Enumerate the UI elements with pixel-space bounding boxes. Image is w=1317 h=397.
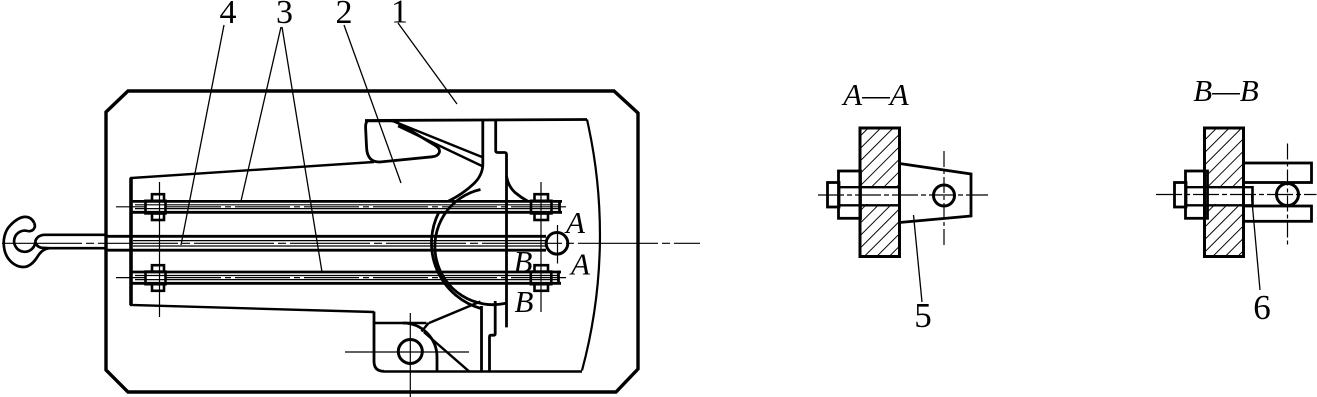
svg-text:3: 3 xyxy=(276,0,293,31)
svg-text:B: B xyxy=(515,284,534,319)
svg-text:A: A xyxy=(569,247,591,282)
svg-text:4: 4 xyxy=(220,0,237,31)
svg-text:B—B: B—B xyxy=(1193,73,1259,108)
svg-text:1: 1 xyxy=(391,0,408,31)
svg-text:A: A xyxy=(564,205,586,240)
svg-text:2: 2 xyxy=(336,0,353,31)
svg-text:5: 5 xyxy=(914,296,932,335)
svg-text:A—A: A—A xyxy=(841,77,910,112)
svg-text:B: B xyxy=(514,244,533,279)
svg-text:6: 6 xyxy=(1253,288,1271,327)
